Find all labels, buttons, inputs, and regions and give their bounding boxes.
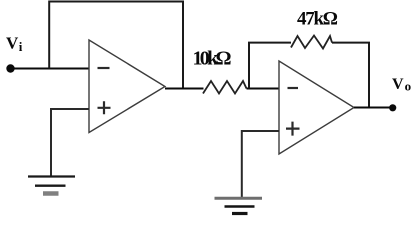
resistor R2	[291, 36, 332, 49]
label R2 value 47kOhm	[297, 8, 338, 29]
label Vo	[392, 76, 411, 94]
wire U2 output	[354, 107, 393, 109]
U2 inverting input marker	[288, 87, 299, 89]
wire U2 noninverting input to ground	[242, 131, 279, 197]
node Vo output terminal	[389, 104, 396, 111]
U1 noninverting input marker	[98, 101, 111, 114]
U2 triangle body	[279, 61, 354, 154]
svg-text:10kΩ: 10kΩ	[193, 48, 232, 70]
ground G1	[28, 177, 75, 194]
wire U2 feedback left segment	[249, 43, 291, 89]
U1 triangle body	[89, 40, 165, 133]
resistor R1	[203, 81, 247, 94]
svg-text:Vo: Vo	[392, 76, 411, 94]
op-amp U1	[89, 40, 165, 133]
label R1 value 10kOhm	[193, 48, 232, 70]
wire Vi to U1 inverting input	[11, 68, 90, 70]
svg-text:Vi: Vi	[6, 33, 23, 54]
wire U1 output	[165, 88, 204, 90]
U2 noninverting input marker	[286, 122, 300, 136]
svg-text:47kΩ: 47kΩ	[297, 8, 338, 29]
wire U1 noninverting input to ground	[51, 109, 89, 176]
node Vi input terminal	[6, 64, 14, 72]
ground G2	[215, 198, 263, 213]
label Vi	[6, 33, 23, 54]
wire U1 feedback loop output to inverting input	[49, 2, 183, 89]
op-amp U2	[279, 61, 354, 154]
U1 inverting input marker	[98, 67, 110, 69]
wire U2 feedback right segment	[332, 43, 369, 108]
wire R1 to U2 inverting input	[247, 88, 280, 90]
